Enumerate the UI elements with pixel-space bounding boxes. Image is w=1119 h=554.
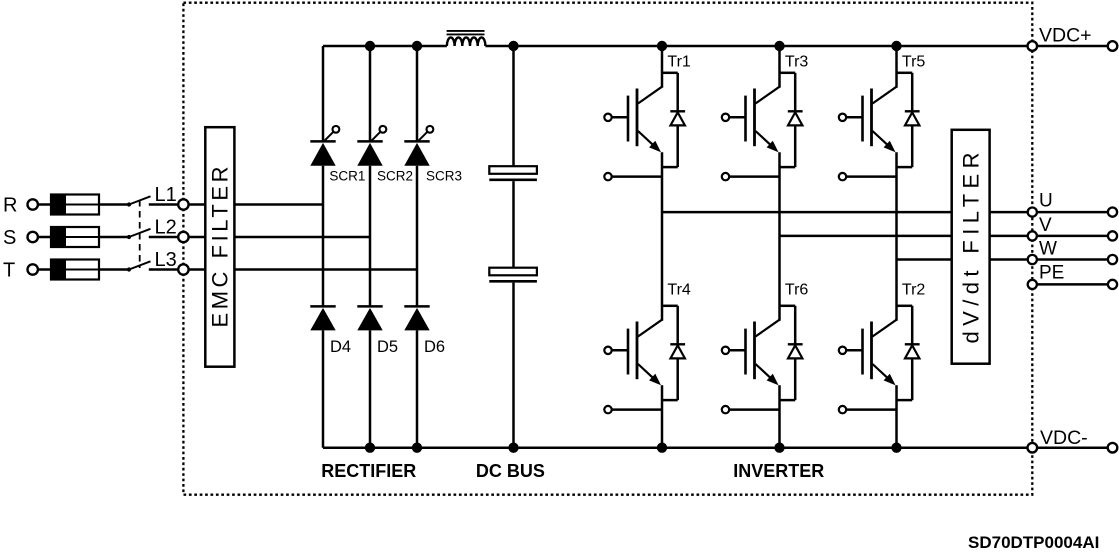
svg-text:VDC+: VDC+ (1039, 24, 1092, 46)
svg-text:D5: D5 (377, 338, 398, 356)
svg-text:INVERTER: INVERTER (733, 461, 824, 481)
svg-text:W: W (1039, 239, 1057, 260)
svg-text:Tr2: Tr2 (902, 282, 926, 299)
svg-text:Tr4: Tr4 (667, 282, 691, 299)
svg-text:DC BUS: DC BUS (476, 461, 545, 481)
svg-text:SCR2: SCR2 (377, 168, 413, 183)
svg-text:Tr3: Tr3 (785, 53, 809, 70)
svg-text:V: V (1039, 215, 1052, 236)
svg-text:RECTIFIER: RECTIFIER (321, 461, 416, 481)
svg-text:L2: L2 (155, 217, 177, 239)
svg-text:L3: L3 (155, 249, 177, 271)
svg-text:T: T (3, 260, 15, 282)
svg-text:Tr6: Tr6 (785, 282, 809, 299)
svg-text:dV/dt FILTER: dV/dt FILTER (958, 152, 983, 343)
svg-text:L1: L1 (155, 184, 177, 206)
svg-text:Tr1: Tr1 (667, 53, 691, 70)
svg-text:PE: PE (1039, 263, 1064, 284)
svg-text:R: R (3, 195, 17, 217)
svg-text:D6: D6 (424, 338, 445, 356)
svg-text:S: S (3, 227, 16, 249)
svg-text:VDC-: VDC- (1040, 427, 1088, 449)
svg-text:Tr5: Tr5 (902, 53, 926, 70)
svg-text:U: U (1039, 190, 1053, 211)
svg-text:SCR1: SCR1 (329, 168, 365, 183)
svg-text:D4: D4 (330, 338, 351, 356)
svg-text:EMC FILTER: EMC FILTER (208, 167, 233, 328)
svg-text:SD70DTP0004AI: SD70DTP0004AI (968, 533, 1099, 552)
svg-text:SCR3: SCR3 (426, 168, 462, 183)
